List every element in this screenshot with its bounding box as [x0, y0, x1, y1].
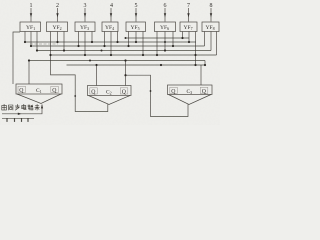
svg-text:C3: C3 — [187, 89, 193, 95]
flip-flop FF2 box — [88, 86, 132, 96]
wire YF3 drop b — [84, 32, 86, 56]
wire R7 to FF2 input a — [96, 65, 98, 86]
sync circuit label (vector CJK: 由同步电路来) — [2, 104, 40, 110]
gate YF1 — [20, 22, 41, 32]
input arrow 2 — [56, 8, 58, 22]
gate YF2 — [47, 22, 68, 32]
wire YF3 drop a — [78, 32, 80, 47]
junction at 128.5,46 — [127, 45, 129, 47]
FF3 Qbar terminal box — [200, 87, 208, 93]
svg-text:1: 1 — [30, 3, 33, 9]
wire YF6 drop b — [164, 32, 166, 51]
matrix rail R2 — [25, 41, 196, 43]
junction at 101.5,50.5 — [101, 50, 103, 52]
junction at 157,55 — [156, 54, 158, 56]
junction at 189,42 — [188, 41, 190, 43]
char 电 — [22, 104, 27, 110]
wire YF7 drop b — [188, 32, 190, 43]
gate YF3 — [75, 22, 95, 32]
FF1 Qbar terminal box — [51, 86, 59, 92]
wire R6 to FF1 set input — [28, 61, 30, 85]
char 来 — [35, 104, 40, 110]
junction at 31,46 — [30, 45, 32, 47]
wire left bus down to FF1 — [13, 32, 20, 84]
wire right corner R6 down — [204, 61, 206, 66]
matrix rail R5 — [51, 54, 217, 56]
junction at 75.2,96 — [74, 95, 76, 97]
svg-text:4: 4 — [110, 3, 113, 9]
matrix rail R4 — [37, 50, 211, 52]
wire YF6 drop c — [172, 32, 174, 47]
junction at 165,42 — [164, 41, 166, 43]
junction at 117.5,42 — [116, 41, 118, 43]
gate YF4 — [102, 22, 118, 32]
flip-flop FF3 box — [168, 85, 213, 95]
svg-text:YF8: YF8 — [206, 25, 215, 31]
wire YF6 drop a — [156, 32, 158, 56]
junction at 111,55 — [110, 54, 112, 56]
gate YF6 — [155, 22, 176, 32]
svg-text:YF1: YF1 — [26, 25, 35, 31]
char 由 — [2, 104, 7, 110]
svg-text:YF5: YF5 — [131, 25, 140, 31]
junction at 125.5,38 — [125, 37, 127, 39]
input arrow 7 — [187, 8, 189, 22]
svg-text:8: 8 — [210, 3, 213, 9]
scan noise — [0, 0, 220, 125]
wire YF5 drop a — [128, 32, 130, 47]
junction at 161,65 — [160, 64, 162, 66]
svg-text:3: 3 — [84, 3, 87, 9]
wire YF1 drop b — [30, 32, 32, 47]
wire YF1 drop c — [36, 32, 38, 51]
wire YF4 drop c — [117, 32, 119, 43]
gate YF7 — [180, 22, 197, 32]
wire YF2 drop a long to clock path — [50, 32, 52, 56]
junction at 143,55 — [142, 54, 144, 56]
wire YF4 drop a — [104, 32, 106, 47]
char 同 — [9, 105, 13, 110]
input arrow 6 — [164, 8, 166, 22]
junction at 96.5,65 — [95, 64, 97, 66]
FF2 Q terminal box — [90, 88, 98, 94]
sync waveform — [2, 117, 34, 119]
junction at 165,50.5 — [164, 49, 166, 51]
junction at 182.5,38 — [181, 37, 183, 39]
junction at 90,60.5 — [89, 60, 91, 62]
junction at 195.5,65 — [194, 64, 196, 66]
svg-text:YF7: YF7 — [184, 25, 193, 31]
matrix rail R1 — [125, 37, 189, 39]
svg-text:YF6: YF6 — [160, 25, 169, 31]
junction at 195.5,55 — [194, 54, 196, 56]
wire YF8 drop a corner to R3 — [204, 32, 206, 47]
svg-text:2: 2 — [56, 3, 59, 9]
input arrow 3 — [84, 8, 86, 22]
junction at 50.5,55 — [49, 54, 51, 56]
svg-text:7: 7 — [187, 3, 190, 9]
svg-text:6: 6 — [164, 3, 167, 9]
svg-text:C1: C1 — [36, 88, 42, 94]
junction at 205,65 — [204, 64, 206, 66]
input arrow 5 — [135, 8, 137, 22]
svg-text:C2: C2 — [106, 90, 112, 96]
wire YF8 drop b corner to R4 — [210, 32, 212, 51]
svg-text:5: 5 — [135, 3, 138, 9]
junction at 92,42 — [91, 41, 93, 43]
junction at 104.5,46 — [103, 45, 105, 47]
input arrow 1 — [30, 8, 32, 22]
FF1 funnel — [17, 94, 61, 104]
FF3 Q terminal box — [170, 87, 178, 93]
wire clock riser FF3 — [126, 75, 189, 116]
faint rail fragment — [30, 43, 58, 45]
junction at 78.5,46 — [77, 45, 79, 47]
wire YF2 drop c — [63, 32, 65, 51]
wire YF5 drop b — [135, 32, 137, 43]
junction at 125.5,60.5 — [124, 59, 126, 61]
gate YF8 — [202, 22, 219, 32]
junction at 37,50.5 — [36, 49, 38, 51]
matrix rail R7 — [67, 64, 206, 66]
FF2 funnel — [89, 96, 131, 105]
junction at 64,50.5 — [63, 49, 65, 51]
flip-flop FF1 box — [16, 84, 62, 94]
gate YF5 — [126, 22, 146, 32]
svg-text:YF3: YF3 — [80, 25, 89, 31]
wire R7 to FF3 input — [200, 65, 202, 85]
char 步 — [15, 104, 20, 110]
Q terminal boxes — [18, 86, 208, 94]
wire YF1 drop a — [24, 32, 26, 43]
wire clock riser FF2 — [51, 55, 108, 112]
svg-text:YF2: YF2 — [53, 25, 62, 31]
char 路 — [28, 105, 33, 110]
matrix rail R6 — [29, 60, 205, 62]
junction at 136,42 — [135, 41, 137, 43]
wire R6 to FF2 input b — [125, 61, 127, 86]
matrix rail R3 — [31, 45, 205, 47]
wire YF7 drop a — [182, 32, 184, 39]
FF2 Qbar terminal box — [120, 88, 128, 94]
junction at 25,42 — [24, 41, 26, 43]
junction at 173,46 — [172, 45, 174, 47]
input arrow 4 — [110, 8, 112, 22]
junction at 125.5,75.2 — [124, 74, 126, 76]
FF3 funnel — [169, 95, 212, 105]
wire YF5 drop c — [142, 32, 144, 56]
junction at 85,55 — [84, 54, 86, 56]
wire YF3 drop c — [91, 32, 93, 43]
wire YF7 drop c — [195, 32, 197, 66]
sync input line with arrow to FF1 clock — [2, 105, 42, 114]
wire YF2 drop b — [57, 32, 59, 43]
svg-text:YF4: YF4 — [105, 25, 114, 31]
input arrow 8 — [210, 8, 212, 22]
wire YF8 drop c corner to R5 — [216, 32, 218, 56]
junction at 150.5,91 — [150, 90, 152, 92]
FF1 Q terminal box — [18, 86, 26, 92]
junction at 29,60.5 — [28, 59, 30, 61]
junction at 57.5,42 — [56, 41, 58, 43]
wire YF4 drop b — [110, 32, 112, 56]
